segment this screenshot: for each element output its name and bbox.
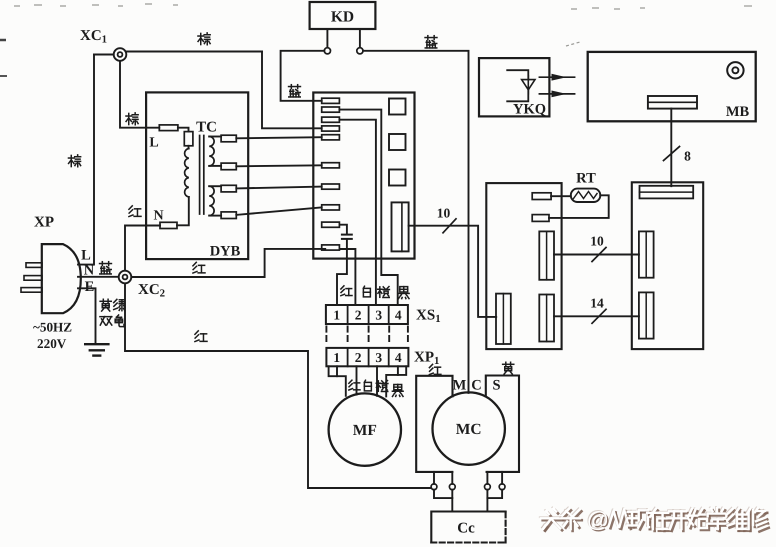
svg-text:MF: MF xyxy=(353,422,377,439)
wire XC1 to left vertical xyxy=(94,54,114,56)
connector plug XP1 xyxy=(326,348,408,366)
power board DYB box xyxy=(146,92,248,259)
wire RT return loop xyxy=(549,195,609,218)
label red at MC left bracket xyxy=(429,364,441,374)
label red below XP1 xyxy=(349,380,360,390)
board relay square 2 xyxy=(389,134,406,150)
board pin7 xyxy=(322,184,340,189)
MB connector bar xyxy=(648,96,697,109)
board pin10 xyxy=(322,245,340,250)
MC terminal stub 4 xyxy=(501,472,503,484)
svg-text:10: 10 xyxy=(437,206,451,221)
interface pin RT-a xyxy=(532,193,551,200)
watermark toutiao xyxy=(540,506,769,533)
svg-text:XC2: XC2 xyxy=(138,282,165,300)
label black below XP1 xyxy=(392,384,403,396)
wire primary bottom to pin N xyxy=(177,197,189,225)
wire red: XC2 right to board pin10 xyxy=(131,249,325,277)
svg-text:XP: XP xyxy=(34,215,54,231)
label orange below XP1 xyxy=(376,381,388,392)
label red (hong) on XC2 right wire xyxy=(193,262,205,273)
interface pin RT-b xyxy=(532,215,549,222)
scan speckles xyxy=(0,4,752,76)
svg-text:MC: MC xyxy=(456,421,482,438)
cable slash mark 8 xyxy=(664,147,680,161)
label red (hong) on DYB N wire xyxy=(129,206,141,217)
wire red: capacitor down to XS1 cell1 xyxy=(337,239,347,305)
label yellow-green (huang) xyxy=(100,299,111,311)
display board MB box xyxy=(588,52,756,121)
transformer TC core xyxy=(200,136,204,215)
plug XP pin L prong xyxy=(26,263,42,268)
wire orange: XP1-3 to MF xyxy=(376,366,378,396)
wire MC terminal2 to Cc xyxy=(451,490,453,512)
drain/pulse motor MF xyxy=(329,393,401,465)
connector XC1 xyxy=(114,48,127,61)
svg-text:8: 8 xyxy=(684,149,691,164)
plug XP pin N prong xyxy=(24,276,42,281)
wire pin9 to capacitor xyxy=(341,225,347,235)
svg-text:YKQ: YKQ xyxy=(513,102,546,118)
transformer TC secondary winding lower xyxy=(209,186,214,215)
wire tap3 to board pin7 xyxy=(236,187,321,189)
label brown (zong) on left vertical wire xyxy=(68,155,80,167)
wire shroud step right xyxy=(398,366,406,375)
ground symbol xyxy=(85,343,108,345)
wire white: XP1-2 to MF xyxy=(356,366,358,394)
board pin2 xyxy=(322,107,340,112)
wire MC terminal1-2 link xyxy=(434,490,452,498)
KD terminal circle left xyxy=(324,48,330,54)
svg-text:XS1: XS1 xyxy=(416,308,441,326)
board pin8 xyxy=(322,205,340,210)
svg-text:E: E xyxy=(85,279,95,295)
pin N in DYB xyxy=(160,222,177,228)
wire pin to RT xyxy=(551,195,571,197)
fuse F1 vertical xyxy=(178,128,189,132)
panel top connector bar xyxy=(640,186,694,199)
label blue (lan) on KD left wire xyxy=(289,85,301,97)
label brown (zong) on XC1 top wire xyxy=(198,33,210,45)
wire red: XC2 down to MC motor xyxy=(125,283,431,488)
wire 8-core cable MB to display panel xyxy=(670,109,672,187)
wire blue: KD left terminal to board pin1 xyxy=(281,51,325,101)
display panel box xyxy=(632,182,703,349)
wire blue N: plug N to XC2 xyxy=(78,276,119,278)
capacitor box Cc xyxy=(431,512,505,543)
label dual-color (shuang) xyxy=(100,317,112,325)
label blue (lan) on KD right wire xyxy=(425,36,437,48)
door switch KD box xyxy=(310,2,376,29)
panel connector bar upper xyxy=(639,231,654,277)
secondary tap terminal 1 xyxy=(209,136,221,138)
svg-text:MB: MB xyxy=(726,104,750,120)
wire MC terminal3 to Cc xyxy=(486,490,488,512)
svg-text:1: 1 xyxy=(333,308,340,323)
wire tap4 to board pin8 xyxy=(236,207,321,215)
fuse pin L in DYB xyxy=(159,125,178,131)
IR emitter diode symbol in YKQ xyxy=(507,70,528,79)
wire bus from pin3 (orange) xyxy=(339,120,376,305)
secondary tap terminal 2 xyxy=(209,165,221,167)
svg-text:DYB: DYB xyxy=(210,244,241,260)
label blue (lan) on plug N wire xyxy=(100,262,112,274)
secondary tap terminal 4 xyxy=(209,215,221,217)
label orange above XS1 xyxy=(378,287,390,298)
board pin3 xyxy=(322,117,340,122)
svg-text:M: M xyxy=(453,378,467,394)
KD terminal stub left xyxy=(326,29,328,48)
program control board box xyxy=(313,93,414,259)
svg-text:KD: KD xyxy=(331,9,354,26)
remote control YKQ box xyxy=(479,58,549,116)
wire 10-core cable: board to interface box xyxy=(409,226,497,317)
IR beam arrow 1 xyxy=(539,76,574,78)
plug XP pin E prong xyxy=(21,288,42,293)
wire brown: XC1 right to corner xyxy=(126,51,262,53)
wire tap2 to board pin6 xyxy=(236,165,321,166)
wire 10-core cable interface to panel xyxy=(554,254,639,256)
MC terminal circle 2 xyxy=(449,484,455,490)
label yellow-green (lv) xyxy=(114,299,125,310)
svg-text:3: 3 xyxy=(375,308,382,323)
board relay square 1 xyxy=(389,99,406,115)
interface connector bar bottom-left xyxy=(496,294,511,344)
svg-text:XP1: XP1 xyxy=(414,350,439,368)
wire black: XP1-4 to MF xyxy=(386,366,398,396)
svg-text:RT: RT xyxy=(576,171,596,187)
svg-text:14: 14 xyxy=(590,296,604,311)
svg-text:4: 4 xyxy=(395,350,402,365)
wire yellow-green: plug E to ground xyxy=(78,288,96,343)
label red above XS1 xyxy=(341,286,352,296)
wire MC terminal4-3 link xyxy=(487,490,502,498)
IR beam arrow 2 xyxy=(539,93,574,95)
connector XC2 xyxy=(119,271,132,284)
svg-text:C: C xyxy=(471,378,481,394)
KD terminal stub right xyxy=(359,29,361,48)
svg-text:2: 2 xyxy=(355,350,362,365)
svg-text:2: 2 xyxy=(355,308,362,323)
MC terminal stub 3 xyxy=(486,472,488,484)
svg-text:N: N xyxy=(84,263,95,279)
interface connector bar bottom-middle xyxy=(539,295,554,342)
label yellow at MC right bracket xyxy=(503,362,514,374)
svg-text:S: S xyxy=(492,378,500,394)
MB indicator double circle xyxy=(727,62,743,78)
secondary tap terminal 3 xyxy=(209,185,221,187)
wire brown: XC1 down to DYB pin L xyxy=(120,61,159,128)
MC terminal stub 2 xyxy=(451,472,453,484)
board pin6 xyxy=(322,163,340,168)
svg-text:220V: 220V xyxy=(37,336,67,351)
label white below XP1 xyxy=(364,380,371,391)
board pin1 xyxy=(322,98,340,103)
wire red: XP1-1 to MF xyxy=(337,366,346,396)
cable slash mark 10a xyxy=(443,219,456,233)
svg-text:3: 3 xyxy=(375,350,382,365)
connector socket XS1 xyxy=(326,305,408,324)
KD terminal circle right xyxy=(357,48,363,54)
transformer TC secondary winding upper xyxy=(209,137,214,166)
svg-text:TC: TC xyxy=(196,120,217,136)
svg-text:XC1: XC1 xyxy=(80,28,107,46)
MC terminal circle 3 xyxy=(485,484,491,490)
wire brown: corner down to board pin4 xyxy=(262,52,322,129)
wire white: pin10 to XS1 cell2 xyxy=(340,249,355,305)
wire shroud step left xyxy=(329,366,337,376)
svg-text:~50HZ: ~50HZ xyxy=(33,320,72,335)
wire 14-core cable interface to panel xyxy=(554,315,639,317)
wire red: DYB N pin to XC2 xyxy=(125,226,160,271)
panel connector bar lower xyxy=(639,292,654,338)
cable slash mark 14 xyxy=(592,309,606,323)
MC terminal circle 4 xyxy=(499,484,505,490)
board pin9 xyxy=(322,222,340,227)
interface board box xyxy=(486,183,561,349)
svg-text:Cc: Cc xyxy=(457,521,475,537)
svg-text:10: 10 xyxy=(590,234,604,249)
label black above XS1 xyxy=(398,287,409,299)
svg-text:N: N xyxy=(153,209,163,224)
label white above XS1 xyxy=(363,286,370,297)
capacitor C1 xyxy=(342,234,352,236)
label dual-color (se) xyxy=(115,315,124,327)
MC motor bracket left xyxy=(416,376,452,472)
wire brown L: XC1 down to plug L xyxy=(78,55,94,265)
wire bus from pin2 (black) xyxy=(339,110,397,305)
MC terminal circle 1 xyxy=(431,484,437,490)
interface connector bar top-middle xyxy=(539,231,554,279)
connector plug XP body xyxy=(42,244,81,313)
board pin5 xyxy=(322,135,340,140)
svg-text:L: L xyxy=(81,248,91,264)
board pin4 xyxy=(322,126,340,131)
main motor MC xyxy=(433,392,505,464)
svg-text:4: 4 xyxy=(395,308,402,323)
thermistor RT xyxy=(571,189,601,202)
svg-text:1: 1 xyxy=(333,350,340,365)
svg-text:@: @ xyxy=(587,507,609,532)
MC terminal stub 1 xyxy=(433,472,435,484)
XS1-XP1 mating dashed lines xyxy=(326,327,408,345)
cable slash mark 10b xyxy=(592,248,606,262)
board edge connector tall xyxy=(392,202,409,251)
wire blue: KD right terminal to MC motor xyxy=(363,51,469,393)
label red (hong) on XC2 down wire xyxy=(195,331,207,342)
wire tap1 to board pin5 xyxy=(236,137,321,138)
transformer TC primary winding xyxy=(185,149,189,197)
svg-text:L: L xyxy=(149,136,158,151)
board relay square 3 xyxy=(389,170,406,186)
label brown (zong) at DYB pin L xyxy=(126,113,138,125)
MC motor bracket right xyxy=(486,376,519,472)
